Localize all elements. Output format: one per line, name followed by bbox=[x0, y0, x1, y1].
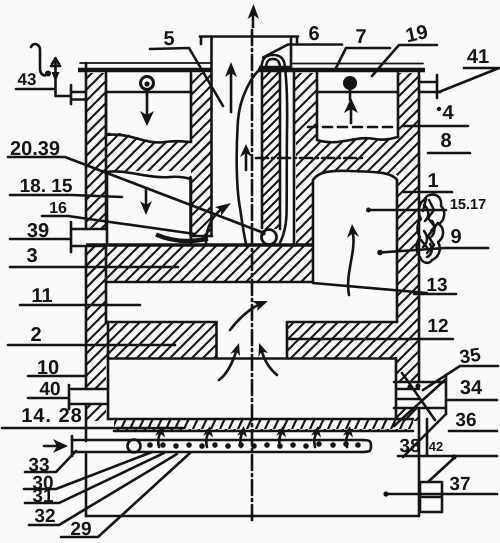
svg-text:40: 40 bbox=[39, 379, 60, 400]
svg-text:39: 39 bbox=[27, 220, 49, 242]
svg-text:37: 37 bbox=[449, 474, 470, 495]
svg-text:31: 31 bbox=[32, 486, 54, 507]
svg-text:7: 7 bbox=[355, 26, 366, 48]
svg-text:18. 15: 18. 15 bbox=[20, 176, 73, 197]
svg-text:1: 1 bbox=[427, 170, 438, 192]
svg-text:13: 13 bbox=[426, 275, 447, 296]
svg-text:19: 19 bbox=[404, 21, 430, 47]
svg-text:34: 34 bbox=[460, 377, 483, 399]
svg-text:9: 9 bbox=[450, 226, 461, 248]
svg-text:12: 12 bbox=[427, 316, 448, 337]
svg-text:2: 2 bbox=[30, 324, 41, 346]
svg-text:3: 3 bbox=[26, 245, 37, 267]
svg-text:5: 5 bbox=[163, 28, 174, 50]
svg-text:38: 38 bbox=[399, 436, 420, 457]
svg-text:11: 11 bbox=[31, 285, 52, 307]
svg-text:35: 35 bbox=[458, 345, 482, 369]
svg-text:16: 16 bbox=[49, 200, 67, 217]
svg-text:20.39: 20.39 bbox=[10, 138, 60, 160]
svg-text:42: 42 bbox=[429, 439, 443, 454]
svg-text:14. 28: 14. 28 bbox=[21, 405, 83, 427]
svg-text:29: 29 bbox=[70, 519, 91, 540]
svg-text:36: 36 bbox=[455, 410, 476, 431]
svg-text:41: 41 bbox=[467, 46, 489, 68]
svg-text:15.17: 15.17 bbox=[450, 197, 486, 213]
svg-text:43: 43 bbox=[18, 70, 37, 89]
svg-text:10: 10 bbox=[37, 357, 59, 379]
svg-text:6: 6 bbox=[308, 23, 319, 45]
svg-text:32: 32 bbox=[34, 506, 55, 527]
svg-text:4: 4 bbox=[442, 102, 454, 124]
svg-text:8: 8 bbox=[440, 130, 451, 152]
